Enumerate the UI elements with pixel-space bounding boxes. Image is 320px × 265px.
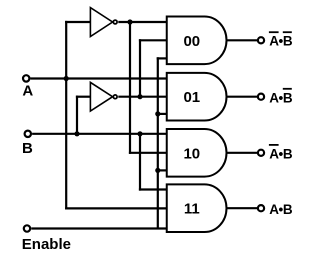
- svg-text:01: 01: [183, 89, 200, 106]
- svg-text:A•B: A•B: [269, 34, 293, 49]
- svg-text:A•B: A•B: [269, 202, 293, 217]
- svg-text:A•B: A•B: [269, 146, 293, 161]
- svg-text:A•B: A•B: [269, 90, 293, 105]
- svg-text:10: 10: [183, 145, 200, 162]
- svg-text:00: 00: [183, 33, 200, 50]
- svg-text:Enable: Enable: [22, 236, 71, 253]
- svg-text:A: A: [22, 83, 33, 100]
- svg-text:B: B: [22, 140, 33, 157]
- svg-text:11: 11: [184, 201, 200, 218]
